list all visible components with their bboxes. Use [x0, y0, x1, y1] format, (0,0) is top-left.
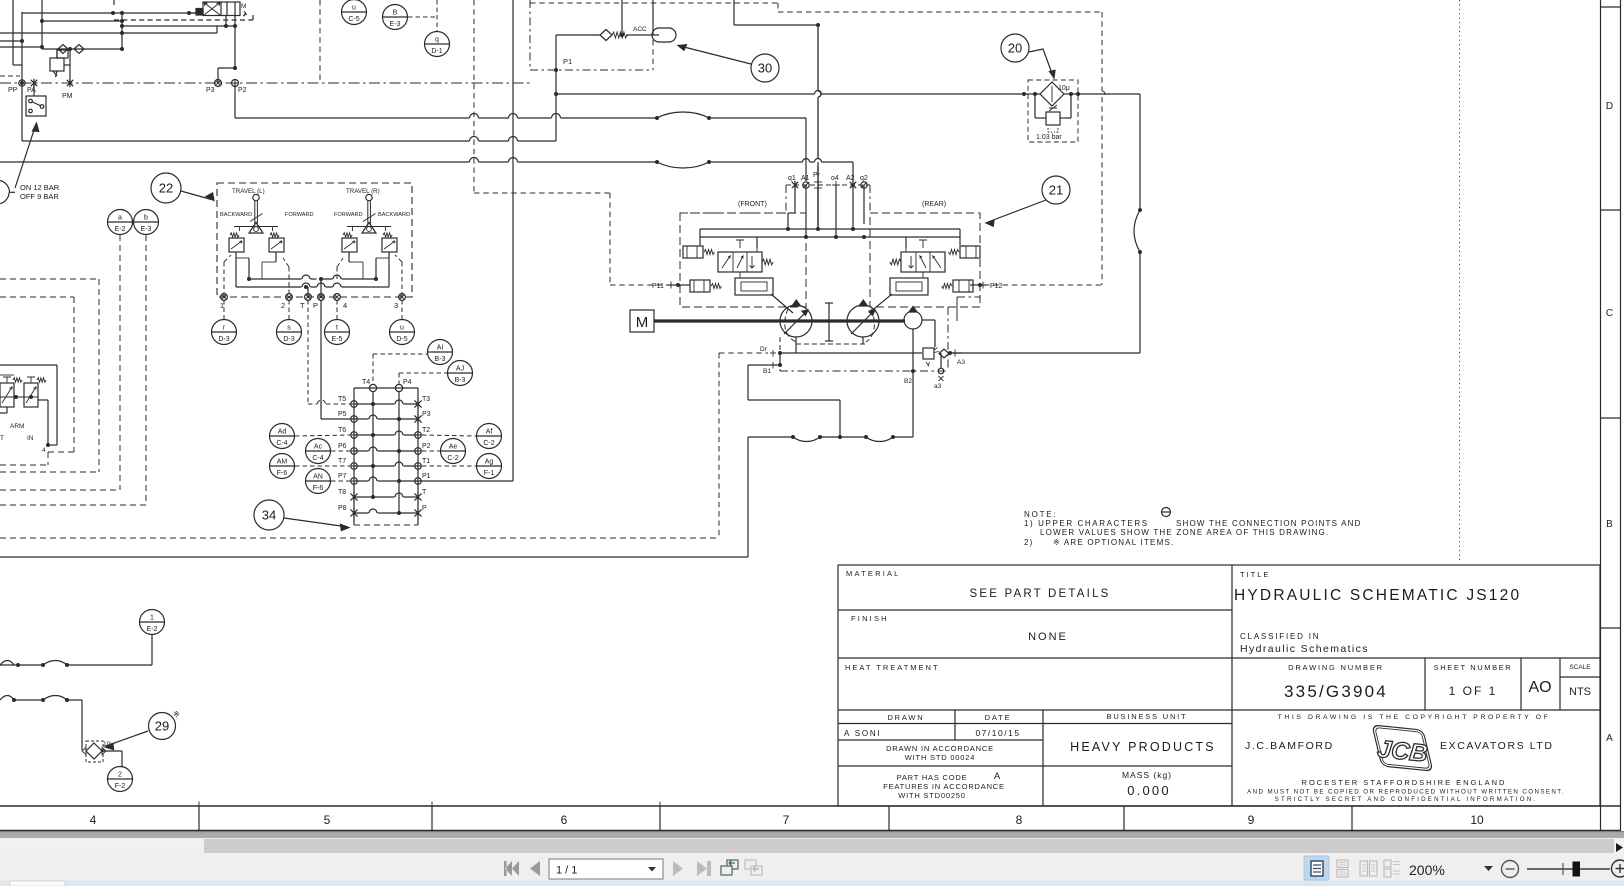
svg-text:TRAVEL (R): TRAVEL (R) — [346, 188, 380, 195]
pilot drain dashed — [718, 353, 720, 538]
drain line — [780, 352, 922, 354]
bubble u — [390, 320, 415, 345]
wire — [734, 24, 818, 26]
svg-text:ARM: ARM — [10, 423, 24, 430]
filter 20 — [1028, 80, 1078, 142]
svg-text:D: D — [1606, 101, 1613, 112]
wire — [733, 0, 735, 25]
svg-text:4: 4 — [42, 447, 46, 454]
leader — [106, 731, 148, 746]
wire P1 right — [418, 480, 513, 482]
main pressure line — [556, 91, 1028, 95]
svg-text:q: q — [435, 37, 439, 44]
hose — [793, 437, 820, 442]
wire — [121, 751, 123, 766]
svg-text:ON 12 BAR: ON 12 BAR — [20, 183, 60, 192]
wire — [950, 352, 1140, 354]
svg-text:Ac: Ac — [314, 444, 323, 451]
svg-text:C-2: C-2 — [447, 455, 458, 462]
junction — [816, 23, 820, 27]
svg-text:b: b — [144, 215, 148, 222]
wire — [922, 319, 935, 321]
svg-text:10: 10 — [1470, 813, 1484, 827]
hose — [43, 661, 67, 666]
svg-text:T: T — [0, 435, 4, 442]
bubble 1/E-2 — [140, 610, 165, 635]
regulator bus — [700, 228, 960, 230]
bubble s — [277, 320, 302, 345]
wire — [0, 46, 42, 48]
dashed — [0, 504, 146, 506]
solenoid valve — [203, 2, 240, 16]
svg-text:C-5: C-5 — [348, 16, 359, 23]
svg-text:A SONI: A SONI — [844, 729, 881, 738]
case drain dashed — [785, 309, 796, 342]
dashed — [399, 372, 447, 374]
svg-text:AJ: AJ — [456, 366, 464, 373]
dashed — [331, 480, 350, 482]
pump regulator FRONT — [683, 240, 773, 295]
svg-text:EXCAVATORS LTD: EXCAVATORS LTD — [1440, 740, 1554, 752]
svg-text:1 / 1: 1 / 1 — [556, 865, 577, 877]
wire — [41, 0, 43, 49]
svg-text:IN: IN — [27, 435, 34, 442]
svg-text:FEATURES IN ACCORDANCE: FEATURES IN ACCORDANCE — [883, 782, 1005, 791]
svg-text:HEAT TREATMENT: HEAT TREATMENT — [845, 663, 940, 672]
svg-text:BACKWARD: BACKWARD — [378, 212, 410, 218]
svg-text:s: s — [287, 325, 291, 332]
bubble q top — [425, 32, 450, 57]
dashed — [336, 267, 338, 279]
dash-dot — [690, 212, 786, 214]
dashed — [224, 255, 231, 262]
balloon 22 — [151, 173, 181, 203]
svg-text:STRICTLY SECRET AND CONFIDENTI: STRICTLY SECRET AND CONFIDENTIAL INFORMA… — [1275, 796, 1538, 803]
pilot dashed — [652, 40, 654, 70]
svg-text:PA: PA — [27, 87, 36, 94]
wire — [42, 48, 122, 50]
page navigation toolbar — [504, 859, 762, 879]
wire — [33, 83, 35, 96]
svg-text:P4: P4 — [403, 379, 412, 386]
svg-text:T6: T6 — [338, 427, 346, 434]
svg-text:AO: AO — [1528, 679, 1551, 696]
svg-text:B: B — [1606, 519, 1613, 530]
svg-text:WITH STD 00024: WITH STD 00024 — [905, 753, 975, 762]
wire — [234, 16, 236, 27]
wire — [151, 635, 153, 665]
svg-text:WITH STD00250: WITH STD00250 — [898, 791, 966, 800]
svg-text:SHEET NUMBER: SHEET NUMBER — [1434, 663, 1513, 672]
svg-text:HEAVY PRODUCTS: HEAVY PRODUCTS — [1070, 740, 1216, 754]
dashed net — [984, 284, 1102, 286]
dashed net — [777, 3, 779, 12]
wire P to grid — [320, 300, 322, 419]
wire — [709, 117, 806, 119]
dashed — [119, 235, 121, 490]
wire — [0, 40, 22, 42]
dashed stub — [0, 75, 20, 77]
drive shaft — [654, 319, 905, 322]
svg-text:T7: T7 — [338, 458, 346, 465]
check valve — [74, 45, 84, 54]
leader — [284, 518, 348, 527]
dash-dot — [869, 185, 871, 213]
title block grid — [838, 565, 1600, 806]
wire — [234, 83, 236, 118]
bubble AI — [428, 340, 453, 365]
hose connector grid 34 — [338, 379, 431, 525]
regulator bus — [700, 236, 960, 238]
accumulator branch — [556, 34, 600, 36]
svg-text:E-5: E-5 — [332, 336, 343, 343]
svg-text:F-2: F-2 — [115, 783, 126, 790]
wire — [652, 0, 654, 35]
zoom toolbar — [1304, 856, 1624, 880]
wire tank line — [0, 158, 657, 163]
bubble AJ — [448, 361, 473, 386]
svg-text:M: M — [241, 3, 246, 10]
wire — [626, 34, 659, 36]
svg-text:P: P — [422, 505, 427, 512]
svg-text:u: u — [352, 5, 356, 12]
svg-text:Ag: Ag — [485, 459, 494, 466]
wire — [940, 353, 942, 368]
svg-text:B-3: B-3 — [435, 356, 446, 363]
svg-text:5: 5 — [324, 813, 331, 827]
travel valve bottom ports — [220, 294, 405, 310]
svg-text:JCB: JCB — [1376, 736, 1429, 767]
svg-text:D-3: D-3 — [218, 336, 229, 343]
port a3 — [938, 368, 944, 374]
wire — [1139, 252, 1141, 353]
svg-text:P2: P2 — [422, 443, 431, 450]
balloon 21 — [1042, 176, 1070, 204]
tank return line — [0, 556, 748, 558]
svg-text:1) UPPER CHARACTERS: 1) UPPER CHARACTERS — [1024, 519, 1149, 528]
bubble Ae — [441, 439, 466, 464]
svg-text:P1: P1 — [563, 57, 572, 66]
wire — [22, 12, 196, 14]
wire — [555, 35, 557, 141]
wire — [905, 237, 907, 248]
swash linkage — [828, 303, 830, 341]
fold mark dotted line — [1459, 0, 1461, 563]
pilot dashed — [609, 193, 611, 285]
svg-text:P1: P1 — [422, 473, 431, 480]
bubble b — [134, 210, 159, 235]
pilot dashed — [474, 192, 610, 194]
svg-text:F-6: F-6 — [277, 470, 288, 477]
svg-text:TRAVEL (L): TRAVEL (L) — [232, 188, 265, 195]
svg-text:P7: P7 — [338, 473, 347, 480]
svg-text:E-3: E-3 — [390, 21, 401, 28]
leader — [680, 46, 751, 64]
wire — [64, 64, 70, 66]
junction — [554, 68, 558, 72]
svg-text:P8: P8 — [338, 505, 347, 512]
wire — [835, 185, 837, 237]
junction — [319, 277, 323, 281]
bubble r — [212, 320, 237, 345]
pilot dash-dot — [530, 69, 653, 71]
svg-text:Ae: Ae — [449, 444, 458, 451]
dash-dot — [785, 185, 787, 213]
wire — [13, 64, 22, 66]
svg-text:P2: P2 — [238, 87, 247, 94]
wire — [756, 237, 758, 248]
svg-text:AM: AM — [277, 459, 288, 466]
port P2 — [232, 80, 239, 87]
svg-text:DRAWING NUMBER: DRAWING NUMBER — [1288, 663, 1384, 672]
dashed — [98, 279, 100, 472]
wire — [56, 49, 58, 58]
wire — [904, 320, 905, 322]
pump ports q1 A1 Pr o4 A2 q2 — [786, 172, 870, 189]
dash-dot — [957, 296, 980, 298]
svg-text:a3: a3 — [934, 383, 942, 390]
wire — [817, 162, 819, 229]
dashed — [0, 296, 74, 298]
wire — [779, 353, 781, 365]
svg-text:AI: AI — [437, 345, 444, 352]
dashed — [408, 16, 437, 18]
pressure switch — [26, 96, 46, 116]
balloon 30 — [751, 54, 779, 82]
wire from top — [512, 0, 514, 481]
wire — [234, 26, 236, 68]
svg-text:T2: T2 — [422, 427, 430, 434]
svg-text:PM: PM — [62, 93, 73, 100]
pilot drain dashed — [719, 352, 768, 354]
dashed net top — [530, 2, 778, 4]
hose line — [0, 664, 152, 666]
dashed net — [778, 11, 1102, 13]
svg-text:P11: P11 — [652, 283, 664, 290]
svg-text:Dr: Dr — [760, 346, 768, 353]
svg-text:NTS: NTS — [1569, 686, 1591, 698]
wire — [852, 162, 854, 181]
wire — [795, 337, 797, 353]
wire — [699, 229, 701, 245]
svg-text:AN: AN — [313, 474, 323, 481]
svg-text:B2: B2 — [904, 378, 912, 385]
filter 29 — [86, 741, 103, 762]
hose — [866, 437, 893, 442]
svg-text:C-2: C-2 — [483, 440, 494, 447]
svg-text:A3: A3 — [957, 359, 965, 366]
wire — [1078, 93, 1140, 95]
wire B1 — [748, 364, 778, 366]
svg-text:B-3: B-3 — [455, 377, 466, 384]
svg-text:Pr: Pr — [813, 172, 821, 179]
svg-text:6: 6 — [561, 813, 568, 827]
svg-text:HYDRAULIC SCHEMATIC JS120: HYDRAULIC SCHEMATIC JS120 — [1234, 587, 1521, 604]
svg-text:t: t — [336, 325, 338, 332]
bubble Ad — [270, 424, 295, 449]
dashed — [0, 471, 99, 473]
junction — [948, 351, 952, 355]
wire P1 pilot line — [22, 137, 556, 142]
junction — [120, 19, 124, 23]
dashed T to grid — [308, 300, 352, 404]
port PP — [19, 80, 25, 86]
wire — [1139, 94, 1141, 210]
dashed net — [1102, 12, 1105, 285]
svg-text:FORWARD: FORWARD — [285, 212, 314, 218]
svg-text:F-1: F-1 — [484, 470, 495, 477]
svg-text:10μ: 10μ — [1058, 85, 1070, 92]
svg-text:200%: 200% — [1409, 862, 1445, 878]
svg-text:P: P — [313, 301, 318, 310]
bubble B top — [383, 5, 408, 30]
spring — [612, 32, 627, 38]
balloon 20 — [1001, 34, 1029, 62]
svg-text:1 OF 1: 1 OF 1 — [1449, 684, 1498, 698]
hose line — [14, 699, 82, 701]
check valve — [939, 349, 949, 358]
svg-text:Hydraulic Schematics: Hydraulic Schematics — [1240, 643, 1369, 655]
relief valve — [50, 58, 64, 71]
svg-text:C-4: C-4 — [312, 455, 323, 462]
svg-text:4: 4 — [343, 301, 347, 310]
dashed — [295, 465, 350, 467]
wire — [320, 279, 322, 297]
dashed — [398, 373, 400, 384]
junction — [786, 227, 790, 231]
check valve — [58, 45, 68, 54]
junction — [778, 351, 782, 355]
svg-text:2: 2 — [118, 772, 122, 779]
pilot dashed — [529, 0, 531, 70]
dashed — [223, 300, 225, 319]
wire — [122, 25, 235, 27]
dashed — [73, 297, 75, 452]
svg-text:T5: T5 — [338, 396, 346, 403]
ARM holding valve — [0, 365, 57, 454]
svg-text:ACC: ACC — [633, 26, 647, 33]
wire — [621, 0, 623, 35]
svg-text:LOWER VALUES SHOW THE ZONE ARE: LOWER VALUES SHOW THE ZONE AREA OF THIS … — [1040, 528, 1329, 537]
hose — [657, 112, 709, 118]
svg-text:T3: T3 — [422, 396, 430, 403]
svg-text:0.000: 0.000 — [1127, 783, 1171, 798]
svg-text:MASS (kg): MASS (kg) — [1122, 770, 1172, 780]
dashed — [0, 489, 120, 491]
svg-text:20: 20 — [1008, 41, 1022, 56]
svg-text:D-5: D-5 — [396, 336, 407, 343]
junction — [120, 11, 124, 15]
svg-text:SHOW THE CONNECTION POINTS AND: SHOW THE CONNECTION POINTS AND — [1176, 519, 1362, 528]
dashed — [336, 300, 338, 319]
svg-text:E-2: E-2 — [147, 626, 158, 633]
svg-text:22: 22 — [159, 181, 173, 196]
scrollbar and toolbar background — [0, 831, 1624, 886]
junction — [838, 435, 842, 439]
dashed — [395, 255, 402, 262]
svg-text:Af: Af — [486, 429, 493, 436]
svg-text:※ ARE OPTIONAL ITEMS.: ※ ARE OPTIONAL ITEMS. — [1053, 538, 1174, 547]
wire — [189, 12, 196, 14]
bubble Ac — [306, 439, 331, 464]
pilot gear pump — [904, 311, 922, 329]
pilot dashed — [473, 0, 475, 193]
wire — [12, 0, 14, 65]
svg-text:o4: o4 — [831, 175, 839, 182]
bubble t — [325, 320, 350, 345]
wire — [81, 700, 83, 750]
svg-text:※: ※ — [173, 710, 180, 719]
svg-text:NOTE:: NOTE: — [1024, 510, 1057, 519]
wire — [747, 365, 749, 400]
svg-text:3: 3 — [394, 301, 398, 310]
svg-text:335/G3904: 335/G3904 — [1284, 682, 1388, 701]
servo link REAR — [869, 294, 892, 313]
svg-text:J.C.BAMFORD: J.C.BAMFORD — [1245, 740, 1334, 752]
pump regulator REAR — [890, 240, 980, 295]
svg-text:F-6: F-6 — [313, 485, 324, 492]
svg-text:DRAWN IN ACCORDANCE: DRAWN IN ACCORDANCE — [886, 744, 994, 753]
wire — [852, 185, 854, 229]
bubble a — [108, 210, 133, 235]
svg-text:OFF 9 BAR: OFF 9 BAR — [20, 192, 59, 201]
svg-text:A: A — [994, 771, 1001, 782]
dashed — [373, 353, 427, 355]
dashed — [288, 300, 290, 319]
svg-text:1: 1 — [150, 615, 154, 622]
wire — [805, 118, 807, 181]
svg-text:E-2: E-2 — [115, 226, 126, 233]
balloon 29 — [149, 713, 176, 740]
title block text — [844, 569, 1591, 803]
wire — [805, 185, 807, 237]
svg-text:SEE PART DETAILS: SEE PART DETAILS — [969, 588, 1110, 600]
port PA — [31, 79, 37, 87]
wire — [709, 159, 853, 162]
bubble Af — [477, 424, 502, 449]
svg-text:THIS DRAWING IS THE COPYRIGHT: THIS DRAWING IS THE COPYRIGHT PROPERTY O… — [1278, 714, 1551, 721]
case dashed — [796, 343, 866, 345]
svg-text:8: 8 — [1016, 813, 1023, 827]
svg-text:MATERIAL: MATERIAL — [846, 569, 901, 578]
port A3 — [950, 352, 962, 354]
svg-text:FINISH: FINISH — [851, 614, 889, 623]
svg-text:T1: T1 — [422, 458, 430, 465]
dashed — [422, 465, 476, 467]
note text — [1024, 508, 1362, 548]
wire — [956, 297, 958, 321]
wire — [863, 185, 865, 224]
hose line — [748, 436, 913, 438]
svg-text:D-3: D-3 — [283, 336, 294, 343]
pump P1 front — [780, 305, 812, 337]
junction — [233, 66, 237, 70]
svg-text:SCALE: SCALE — [1569, 664, 1591, 671]
relief valve pilot — [923, 348, 934, 359]
JCB logo — [1367, 724, 1436, 771]
dashed — [223, 262, 225, 297]
svg-text:P6: P6 — [338, 443, 347, 450]
svg-text:T: T — [422, 489, 427, 496]
accumulator ACC — [652, 28, 676, 42]
dashed — [48, 451, 74, 453]
svg-text:(FRONT): (FRONT) — [738, 201, 767, 208]
wire — [912, 371, 914, 437]
wire — [103, 750, 122, 752]
motor M — [630, 310, 654, 332]
dashed — [422, 450, 440, 452]
svg-text:4: 4 — [90, 813, 97, 827]
